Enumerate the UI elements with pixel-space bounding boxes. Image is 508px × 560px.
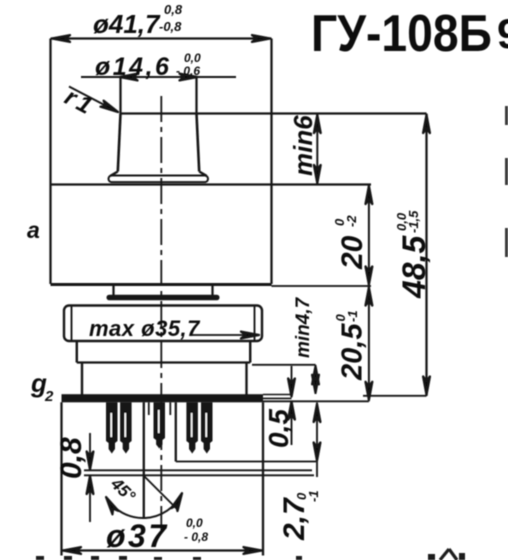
dimension ø41,7 top line <box>51 37 272 39</box>
svg-text:ø41,7: ø41,7 <box>93 9 161 39</box>
reference line B <box>84 474 314 476</box>
skirt right edge <box>262 402 264 555</box>
section below ring <box>76 342 78 363</box>
min6 dimension <box>316 114 318 185</box>
pin 2 <box>120 402 132 453</box>
base plate <box>62 394 264 402</box>
20,5 dimension <box>368 286 370 401</box>
body top line + extension to right dims <box>51 183 372 185</box>
svg-text:0,5: 0,5 <box>263 409 294 448</box>
bottom cut-off glyphs <box>36 553 465 560</box>
min4,7 dimension <box>252 364 316 366</box>
ø37 dimension <box>62 549 264 551</box>
svg-text:0,8: 0,8 <box>164 2 183 17</box>
right edge marks <box>505 106 508 257</box>
0,5 dimension <box>291 366 293 397</box>
pin 3 (center) <box>154 402 166 448</box>
cap left side <box>118 114 121 172</box>
r1 leader and label <box>69 87 115 111</box>
svg-text:9: 9 <box>497 10 508 57</box>
svg-text:20: 20 <box>336 235 369 270</box>
svg-text:45°: 45° <box>107 474 140 506</box>
cap flare right <box>199 172 206 176</box>
svg-text:-1: -1 <box>306 490 321 502</box>
svg-text:max ø35,7: max ø35,7 <box>89 316 201 341</box>
svg-text:2,7: 2,7 <box>278 497 311 541</box>
2,7 dimension <box>316 403 318 478</box>
svg-text:- 0,6: - 0,6 <box>176 64 200 78</box>
svg-text:0,8: 0,8 <box>55 437 88 479</box>
cap right side <box>197 114 200 172</box>
svg-text:-2: -2 <box>344 215 359 227</box>
svg-text:min4,7: min4,7 <box>293 296 314 358</box>
svg-text:-0,8: -0,8 <box>159 19 182 34</box>
body right edge <box>270 39 272 285</box>
cap top line + long extension right (48,5 / min6 reference) <box>121 112 427 114</box>
ring max ø35,7 <box>64 306 262 342</box>
bottom right cut-off glyph <box>440 549 457 560</box>
svg-text:a: a <box>27 217 40 243</box>
20 dimension <box>368 185 370 287</box>
svg-text:0,0: 0,0 <box>186 516 203 530</box>
body bottom line <box>51 283 272 286</box>
neck bar <box>107 295 220 300</box>
pin 4 <box>186 402 198 453</box>
48,5 dimension <box>425 114 427 397</box>
cap flange <box>109 176 209 183</box>
svg-text:0,0: 0,0 <box>184 51 201 65</box>
dimension ø14,6 <box>81 76 236 78</box>
centerline (tube axis) <box>160 96 162 530</box>
45 degree arc <box>106 493 182 518</box>
reference line from post to 2,7 <box>176 461 316 463</box>
svg-text:-1,5: -1,5 <box>406 210 421 233</box>
svg-text:20,5: 20,5 <box>337 323 369 381</box>
pin 1 <box>106 402 118 453</box>
anode cap extension lines <box>119 77 121 114</box>
body left edge (ø41,7 extension) <box>49 39 51 285</box>
svg-text:- 0,8: - 0,8 <box>184 530 208 544</box>
svg-text:48,5: 48,5 <box>396 235 432 299</box>
svg-text:-1: -1 <box>345 310 360 322</box>
center post (key) <box>143 402 145 519</box>
cap flare left <box>111 172 118 176</box>
svg-text:min6: min6 <box>288 115 318 176</box>
skirt left edge <box>60 402 62 555</box>
45 degree ray diagonal <box>144 476 177 509</box>
svg-text:ГУ-108Б: ГУ-108Б <box>311 5 492 63</box>
svg-text:r1: r1 <box>60 83 100 121</box>
neck below body <box>112 285 114 295</box>
reference line A <box>84 469 312 471</box>
svg-text:ø37: ø37 <box>106 518 169 554</box>
pins <box>106 402 213 453</box>
svg-text:2: 2 <box>44 388 54 405</box>
0,8 dimension <box>89 433 91 470</box>
pin highlight slots <box>111 410 206 437</box>
g2 section <box>81 363 83 395</box>
svg-text:ø14,6: ø14,6 <box>95 53 171 81</box>
pin 5 <box>201 402 213 453</box>
